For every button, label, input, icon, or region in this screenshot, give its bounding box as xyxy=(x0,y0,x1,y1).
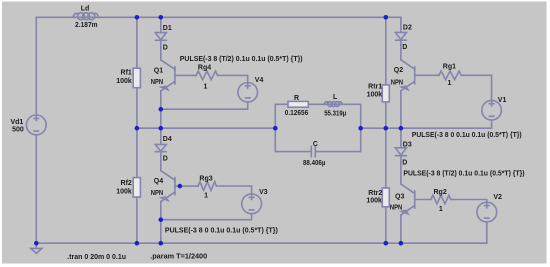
svg-text:V4: V4 xyxy=(255,77,264,84)
svg-text:1: 1 xyxy=(439,206,443,213)
node bottom Rtr2 xyxy=(384,241,389,246)
resistor Rg4 xyxy=(196,71,217,80)
voltage source Vd1 xyxy=(26,115,46,135)
wire tank bottom xyxy=(275,151,360,153)
node bottom Q3 xyxy=(399,241,404,246)
svg-text:100k: 100k xyxy=(116,78,132,85)
svg-text:D3: D3 xyxy=(403,142,412,149)
node mid Q1-Q4 xyxy=(159,126,164,131)
svg-text:Rg4: Rg4 xyxy=(198,64,211,71)
wire top rail xyxy=(36,16,401,18)
wire V4 loop xyxy=(161,75,248,109)
svg-text:PULSE(-3 8 0 0.1u 0.1u (0.5*T): PULSE(-3 8 0 0.1u 0.1u (0.5*T) {T}) xyxy=(165,227,278,234)
svg-text:Q3: Q3 xyxy=(395,193,404,200)
resistor Rtr2 xyxy=(382,188,389,207)
svg-text:55.319µ: 55.319µ xyxy=(324,110,346,117)
wire tank top xyxy=(275,103,360,105)
node Q4 base xyxy=(178,184,183,189)
wire left rail lower xyxy=(35,135,37,244)
svg-text:2.187m: 2.187m xyxy=(75,22,98,29)
svg-text:Rg2: Rg2 xyxy=(434,189,447,196)
voltage source V3 xyxy=(242,194,262,214)
svg-text:NPN: NPN xyxy=(151,79,163,86)
svg-text:Q2: Q2 xyxy=(394,67,403,74)
node top Rf1 xyxy=(135,15,140,20)
diode D1 xyxy=(155,33,166,41)
resistor Rg2 xyxy=(431,195,451,204)
svg-text:Q4: Q4 xyxy=(154,178,163,185)
svg-text:1: 1 xyxy=(448,80,452,87)
svg-text:PULSE(-3 8 (T/2) 0.1u 0.1u (0.: PULSE(-3 8 (T/2) 0.1u 0.1u (0.5*T) {T}) xyxy=(403,171,524,178)
resistor Rtr1 xyxy=(382,85,389,102)
svg-text:Rtr1: Rtr1 xyxy=(368,84,382,91)
svg-text:R: R xyxy=(294,95,299,102)
resistor Rf1 xyxy=(133,68,140,88)
wire V3 loop xyxy=(161,186,252,220)
resistor Rg3 xyxy=(198,182,216,191)
node top D1 xyxy=(159,15,164,20)
svg-text:NPN: NPN xyxy=(151,190,163,197)
svg-text:Q1: Q1 xyxy=(154,67,163,74)
svg-text:D4: D4 xyxy=(163,136,172,143)
svg-text:NPN: NPN xyxy=(390,204,402,211)
wire D1-Q1 column xyxy=(160,17,162,243)
svg-text:D: D xyxy=(163,45,168,52)
resistor R (tank, box) xyxy=(288,101,308,107)
wire tank right side xyxy=(360,104,362,151)
transistor Q1 xyxy=(161,60,196,91)
wire bottom rail xyxy=(36,242,487,244)
wire tank left side xyxy=(274,104,276,151)
svg-text:.param T=1/2400: .param T=1/2400 xyxy=(150,254,207,261)
wire D2-Q3 column xyxy=(400,17,402,243)
svg-text:V3: V3 xyxy=(259,189,268,196)
diode D2 xyxy=(395,32,406,40)
wire mid rail right xyxy=(361,127,492,129)
node mid Rf xyxy=(135,126,140,131)
svg-text:D1: D1 xyxy=(163,25,172,32)
node mid Q2-D3 xyxy=(399,126,404,131)
svg-text:.tran 0 20m 0 0.1u: .tran 0 20m 0 0.1u xyxy=(67,254,126,261)
resistor Rg1 xyxy=(439,71,461,80)
svg-text:D: D xyxy=(163,155,168,162)
voltage source V1 xyxy=(482,100,502,120)
transistor Q3 xyxy=(401,184,431,215)
diode D3 xyxy=(395,148,406,156)
node bottom ground xyxy=(34,241,39,246)
voltage source V2 xyxy=(477,202,497,222)
wire left rail upper xyxy=(35,17,37,115)
inductor Ld xyxy=(73,13,99,20)
svg-text:Ld: Ld xyxy=(81,6,90,13)
svg-text:V1: V1 xyxy=(498,97,507,104)
svg-text:100k: 100k xyxy=(366,198,382,205)
wire mid rail left xyxy=(137,127,275,129)
node bottom Rf2 xyxy=(135,241,140,246)
svg-text:0.12656: 0.12656 xyxy=(285,110,309,117)
transistor Q2 xyxy=(401,60,439,91)
node top Rtr1 xyxy=(384,15,389,20)
wire Rf column xyxy=(136,17,138,243)
svg-text:88.406µ: 88.406µ xyxy=(303,160,325,167)
node Q1 emitter xyxy=(159,107,164,112)
wire V2 loop xyxy=(451,200,487,244)
wire Rtr column xyxy=(385,17,387,243)
svg-text:Rtr2: Rtr2 xyxy=(368,190,382,197)
resistor Rf2 xyxy=(133,178,140,197)
node tank left xyxy=(273,126,278,131)
svg-text:Rf2: Rf2 xyxy=(121,180,132,187)
svg-text:V2: V2 xyxy=(493,194,502,201)
node bottom Q4 xyxy=(159,241,164,246)
svg-text:L: L xyxy=(333,94,338,101)
svg-text:Rf1: Rf1 xyxy=(121,70,132,77)
svg-text:NPN: NPN xyxy=(391,79,403,86)
svg-text:Rg1: Rg1 xyxy=(443,64,456,71)
svg-text:D: D xyxy=(402,159,407,166)
svg-text:100k: 100k xyxy=(367,92,383,99)
node Q4 emitter xyxy=(159,217,164,222)
voltage source V4 xyxy=(238,83,258,103)
svg-text:500: 500 xyxy=(12,127,24,134)
ground xyxy=(31,243,42,253)
wire V1 loop xyxy=(461,75,491,128)
svg-text:1: 1 xyxy=(204,193,208,200)
capacitor C xyxy=(311,146,315,156)
svg-text:D2: D2 xyxy=(403,25,412,32)
transistor Q4 xyxy=(161,171,198,202)
svg-text:D: D xyxy=(402,44,407,51)
svg-text:C: C xyxy=(313,141,318,148)
node mid Rtr xyxy=(384,126,389,131)
svg-text:PULSE(-3 8 0 0.1u 0.1u (0.5*T): PULSE(-3 8 0 0.1u 0.1u (0.5*T) {T}) xyxy=(412,132,522,139)
diode D4 xyxy=(155,144,166,151)
svg-text:1: 1 xyxy=(203,83,207,90)
node tank right xyxy=(358,126,363,131)
svg-text:PULSE(-3 8 (T/2) 0.1u 0.1u (0.: PULSE(-3 8 (T/2) 0.1u 0.1u (0.5*T) {T}) xyxy=(180,56,303,63)
svg-text:Vd1: Vd1 xyxy=(10,119,23,126)
inductor L (tank) xyxy=(324,102,342,107)
svg-text:Rg3: Rg3 xyxy=(199,175,212,182)
svg-text:100k: 100k xyxy=(116,189,132,196)
